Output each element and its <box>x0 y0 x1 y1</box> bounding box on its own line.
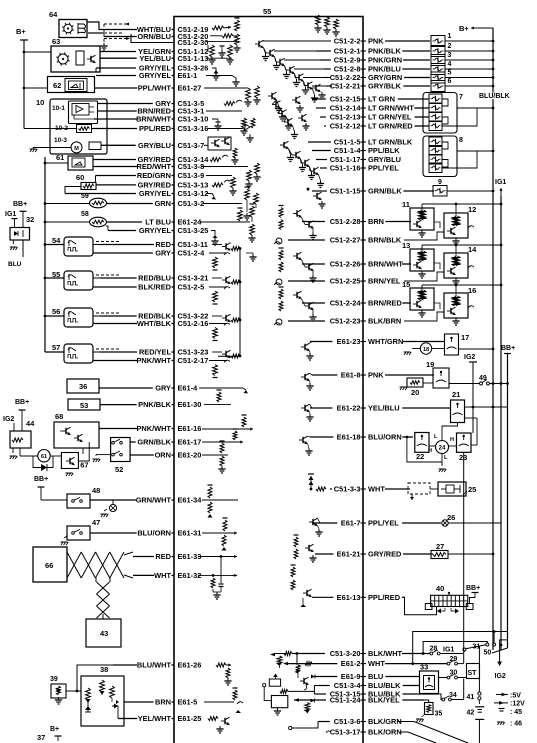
svg-text:39: 39 <box>50 676 58 683</box>
wire GRY/YEL to C51-3-25 <box>108 230 136 232</box>
driver E61-18 <box>302 437 304 443</box>
wire BLK/WHT from C51-3-20 <box>292 653 325 655</box>
internal E61-20 <box>202 454 228 456</box>
load 6 <box>431 81 445 92</box>
coil wiring 11/12 <box>422 203 501 205</box>
diagonal leads bottom <box>398 722 468 743</box>
wire BLK/ORN from C51-3-17 <box>326 731 328 733</box>
svg-text:14: 14 <box>468 245 477 254</box>
internal E61-16 <box>202 428 250 430</box>
wire BLU/ORN to E61-31 <box>117 532 137 534</box>
svg-text:PNK/BLK: PNK/BLK <box>368 47 402 56</box>
svg-text:50: 50 <box>484 650 492 657</box>
svg-text:13: 13 <box>402 241 410 250</box>
wire PPL/WHT to E61-27 <box>95 87 137 89</box>
svg-text:59: 59 <box>81 193 89 200</box>
svg-text:C51-2-5: C51-2-5 <box>178 283 205 292</box>
relay wiring <box>463 452 465 663</box>
svg-text:BB+: BB+ <box>466 585 480 592</box>
svg-text:BLK/WHT: BLK/WHT <box>368 649 403 658</box>
wire YEL/BLU to C51-1-13 <box>100 57 137 59</box>
svg-text:B+: B+ <box>50 726 59 733</box>
internal C51-3-1 <box>206 110 242 112</box>
svg-text:61: 61 <box>56 153 64 162</box>
load 4 <box>431 64 445 75</box>
wire BLU/WHT riser <box>77 665 113 691</box>
svg-text:E61-13: E61-13 <box>337 593 361 602</box>
svg-text:C51-3-12: C51-3-12 <box>178 189 209 198</box>
load 3 <box>431 55 445 66</box>
svg-text:BLK/ORN: BLK/ORN <box>368 728 402 737</box>
svg-text:38: 38 <box>100 665 108 674</box>
svg-text:H: H <box>450 437 454 443</box>
wires injector 54 <box>93 244 100 246</box>
wire PNK/BLK to E61-30 <box>100 404 137 406</box>
svg-text:GRY/YEL: GRY/YEL <box>139 226 172 235</box>
svg-text:PNK: PNK <box>368 371 384 380</box>
wire GRY/GRN from C51-2-22 <box>325 77 328 79</box>
svg-text:54: 54 <box>52 236 61 245</box>
svg-text:BRN: BRN <box>155 698 171 707</box>
svg-text:E61-2: E61-2 <box>341 659 361 668</box>
internal C51-3-16 clamp <box>208 128 243 130</box>
svg-text:11: 11 <box>402 200 410 209</box>
svg-text:E61-7: E61-7 <box>341 519 361 528</box>
svg-text:IG1: IG1 <box>5 211 16 218</box>
svg-text:BLU: BLU <box>368 672 383 681</box>
svg-text:C51-3-17: C51-3-17 <box>330 728 361 737</box>
ground 67 <box>66 472 73 474</box>
svg-text:PPL/BLK: PPL/BLK <box>368 146 400 155</box>
svg-text:C51-2-23: C51-2-23 <box>330 317 361 326</box>
wire RED/WHT to C51-3-8 <box>93 166 137 168</box>
svg-text:C51-2-30: C51-2-30 <box>178 38 209 47</box>
internal E61-31 <box>202 532 234 534</box>
internal C51-3-25 <box>211 231 215 236</box>
wire BLU/BLK from C51-3-15 <box>314 693 326 695</box>
svg-text:3: 3 <box>448 52 452 59</box>
svg-text:10-3: 10-3 <box>54 137 67 144</box>
extra driver row 6 <box>315 85 317 91</box>
svg-text:BRN/RED: BRN/RED <box>368 299 402 308</box>
svg-text:C51-2-15: C51-2-15 <box>330 95 361 104</box>
internal C51-3-8 <box>202 166 248 168</box>
svg-text:PNK/BLK: PNK/BLK <box>138 400 172 409</box>
svg-text:40: 40 <box>436 584 444 593</box>
wire PNK from C51-2-2 <box>329 40 331 42</box>
wire BRN/WHT to C51-3-10 <box>94 118 137 120</box>
wire YEL/WHT to E61-25 <box>118 718 137 720</box>
svg-text:C51-2-13: C51-2-13 <box>330 113 361 122</box>
bus ends bottom <box>500 644 503 647</box>
svg-text:GRN/BLK: GRN/BLK <box>137 438 171 447</box>
wire BLK/RED to C51-2-5 <box>93 286 137 288</box>
shield drain wire <box>131 41 174 43</box>
svg-text:M: M <box>74 146 79 152</box>
svg-text:9: 9 <box>438 179 442 186</box>
wire BLK/GRN from C51-3-6 <box>318 721 330 723</box>
svg-text:BLU: BLU <box>8 261 22 268</box>
svg-text:PPL/YEL: PPL/YEL <box>368 519 399 528</box>
wire GRN/WHT to E61-34 <box>117 499 136 501</box>
wire LT GRN/BLK from C51-1-5 <box>308 141 331 143</box>
svg-text:6: 6 <box>448 78 452 85</box>
svg-text:B+: B+ <box>459 24 469 33</box>
svg-text:BLU/ORN: BLU/ORN <box>368 433 402 442</box>
ground of 32 <box>10 246 17 248</box>
wire GRY/YEL to E61-1 <box>96 75 136 77</box>
svg-text:C51-3-10: C51-3-10 <box>178 115 209 124</box>
twisted pair wiring <box>67 552 81 578</box>
sensor 43 <box>86 619 121 647</box>
svg-text:42: 42 <box>467 710 475 717</box>
wires injector 56 <box>93 315 100 317</box>
svg-text:1: 1 <box>448 33 452 40</box>
svg-text:56: 56 <box>52 307 60 316</box>
svg-text:C51-1-15: C51-1-15 <box>330 187 361 196</box>
wire PPL/YEL from C51-1-16 <box>320 167 327 169</box>
transistor cascade B <box>271 93 273 99</box>
internal C51-3-13 <box>212 183 223 187</box>
svg-text:GRY: GRY <box>155 249 171 258</box>
internal injector drivers <box>212 244 222 246</box>
svg-text:5: 5 <box>448 70 452 77</box>
svg-text:E61-25: E61-25 <box>178 714 202 723</box>
internal driver transistor <box>303 678 305 684</box>
svg-text:C51-3-6: C51-3-6 <box>334 717 361 726</box>
svg-text:C51-2-26: C51-2-26 <box>330 260 361 269</box>
svg-text:18: 18 <box>423 347 429 353</box>
wire GRN/BLK to E61-17 <box>131 441 136 443</box>
svg-text:C51-2-17: C51-2-17 <box>178 356 209 365</box>
internal divider E61-2 <box>283 662 288 665</box>
ground 24 <box>439 468 446 470</box>
svg-text:37: 37 <box>37 733 45 742</box>
sensor 20 <box>407 378 423 387</box>
svg-text:GRY/YEL: GRY/YEL <box>139 71 172 80</box>
svg-text:C51-3-20: C51-3-20 <box>330 649 361 658</box>
svg-text:12: 12 <box>468 205 476 214</box>
internal E61-26 <box>216 663 226 667</box>
internal E61-32 <box>198 574 234 576</box>
main B+ bus <box>492 28 494 650</box>
driver E61-7 <box>312 519 314 525</box>
internal E61-34 <box>202 499 238 501</box>
wire RED/GRN to C51-3-9 <box>96 175 136 177</box>
wire BRN/RED to C51-3-1 <box>98 110 137 112</box>
wire YEL/GRN to C51-1-12 <box>100 51 136 53</box>
svg-text:25: 25 <box>468 485 476 494</box>
internal E61-33 <box>198 556 234 558</box>
svg-text::5V: :5V <box>510 693 521 700</box>
wires injector 55 <box>93 277 100 279</box>
wire YEL/BLU from E61-22 <box>310 407 332 409</box>
svg-text:E61-1: E61-1 <box>178 71 198 80</box>
legend 46 <box>497 721 504 723</box>
svg-text:BRN: BRN <box>368 217 384 226</box>
svg-text:C51-3-21: C51-3-21 <box>178 274 209 283</box>
svg-text:24: 24 <box>439 446 446 452</box>
svg-text:BLK/YEL: BLK/YEL <box>368 696 400 705</box>
internal C51-1-24 network <box>294 698 299 701</box>
svg-text:GRN: GRN <box>155 199 171 208</box>
wire LT GRN from C51-2-15 <box>312 98 326 100</box>
load 9 <box>433 186 447 197</box>
svg-text:C51-2-27: C51-2-27 <box>330 236 361 245</box>
svg-text:BB+: BB+ <box>34 476 48 483</box>
wire PNK/GRN from C51-2-9 <box>320 59 330 61</box>
wire PNK/BLU from C51-2-8 <box>324 68 330 70</box>
svg-text:10-1: 10-1 <box>52 105 65 112</box>
transistor cascade C <box>283 142 285 148</box>
svg-text:PPL/RED: PPL/RED <box>368 593 401 602</box>
svg-text:C51-3-7: C51-3-7 <box>178 141 205 150</box>
resistor 35 <box>425 703 434 715</box>
svg-text:IG2: IG2 <box>464 354 475 361</box>
svg-text:IG1: IG1 <box>495 179 506 186</box>
svg-text:58: 58 <box>81 211 89 218</box>
wire PPL/RED from E61-13 <box>312 596 333 598</box>
load 1 <box>431 36 445 47</box>
internal bracket C51-3-4/15 <box>313 686 315 695</box>
svg-text:15: 15 <box>402 280 410 289</box>
wire C51-3-15 to switch 34 <box>438 694 442 700</box>
internal C51-3-26 pulldown <box>212 68 216 73</box>
ground 44 <box>10 455 17 457</box>
internal E61-30 <box>217 392 221 402</box>
svg-text:C51-3-3: C51-3-3 <box>334 485 361 494</box>
switch 47 <box>67 526 90 540</box>
wire BLK/BRN from C51-2-23 <box>288 320 325 322</box>
svg-text:RED/WHT: RED/WHT <box>137 162 172 171</box>
legend 12V <box>494 702 508 704</box>
svg-text:16: 16 <box>468 286 476 295</box>
svg-text:BLU/BLK: BLU/BLK <box>479 93 510 100</box>
svg-text:PNK/WHT: PNK/WHT <box>137 424 172 433</box>
svg-text:47: 47 <box>92 518 100 527</box>
wire BRN/BLK from C51-2-27 <box>288 239 325 241</box>
svg-text:LT GRN/RED: LT GRN/RED <box>368 122 413 131</box>
svg-text:E61-27: E61-27 <box>178 84 202 93</box>
svg-text:27: 27 <box>436 542 444 551</box>
svg-text:8: 8 <box>459 137 463 144</box>
svg-text:PNK: PNK <box>368 37 384 46</box>
svg-text:BRN/WHT: BRN/WHT <box>136 115 171 124</box>
driver E61-21 <box>294 537 298 547</box>
svg-text:63: 63 <box>52 37 60 46</box>
svg-text:49: 49 <box>479 375 487 382</box>
internal E61-4 <box>199 387 243 389</box>
svg-text:GRY: GRY <box>155 384 171 393</box>
wire GRY/BLK from C51-2-21 <box>326 85 332 87</box>
svg-text:44: 44 <box>26 419 35 428</box>
svg-text:C51-2-2: C51-2-2 <box>334 37 361 46</box>
svg-text:B+: B+ <box>16 27 26 36</box>
internal C51-3-10 <box>212 118 218 120</box>
wire RED to C51-3-11 <box>100 244 154 246</box>
wire GRN to C51-3-2 <box>106 203 153 205</box>
svg-text:C51-3-25: C51-3-25 <box>178 226 209 235</box>
group 7 wiring <box>442 99 448 106</box>
svg-text:BLK/RED: BLK/RED <box>138 283 172 292</box>
svg-text:E61-22: E61-22 <box>337 404 361 413</box>
wire PNK/WHT to E61-16 <box>99 428 137 430</box>
svg-text:C51-3-2: C51-3-2 <box>178 199 205 208</box>
svg-text:10: 10 <box>36 98 44 107</box>
internal driver C51-3-7 <box>208 137 231 150</box>
legend 45 <box>499 708 505 710</box>
svg-text:36: 36 <box>79 382 87 391</box>
svg-text:C51-2-24: C51-2-24 <box>330 299 362 308</box>
internal C51-3-2 network <box>203 203 242 205</box>
svg-text:55: 55 <box>263 7 271 16</box>
driver common rail <box>239 249 241 357</box>
svg-text:WHT/BLK: WHT/BLK <box>137 319 172 328</box>
svg-text:C51-3-8: C51-3-8 <box>178 162 205 171</box>
drivers for ignition rows <box>296 210 298 216</box>
svg-text:BLU/WHT: BLU/WHT <box>137 661 172 670</box>
svg-text:H: H <box>428 448 432 454</box>
wire from 64 <box>87 22 110 30</box>
svg-text:23: 23 <box>459 453 467 462</box>
svg-text:WHT: WHT <box>368 485 385 494</box>
wire WHT to E61-32 <box>133 574 154 576</box>
svg-text:E61-26: E61-26 <box>178 661 202 670</box>
svg-text:GRN/WHT: GRN/WHT <box>136 496 172 505</box>
driver E61-13 <box>291 567 295 577</box>
internal C51-3-17 tick <box>328 731 331 733</box>
svg-text:C51-1-24: C51-1-24 <box>330 696 362 705</box>
svg-text:C51-1-13: C51-1-13 <box>178 54 209 63</box>
sensor 53 <box>68 399 100 410</box>
wire RED/BLU to C51-3-21 <box>100 277 137 279</box>
svg-text:: 46: : 46 <box>510 721 522 728</box>
svg-text:41: 41 <box>467 694 475 701</box>
svg-text:35: 35 <box>435 711 443 718</box>
svg-text:BB+: BB+ <box>501 345 515 352</box>
svg-text:GRY/RED: GRY/RED <box>368 550 402 559</box>
legend 5V <box>496 694 508 696</box>
internal C51-3-9 <box>206 175 232 177</box>
svg-text:LT GRN/WHT: LT GRN/WHT <box>368 104 414 113</box>
wires injector 57 <box>93 351 100 353</box>
shield ground <box>103 43 105 46</box>
BLU/BLK bus label <box>478 93 510 100</box>
svg-text:YEL/WHT: YEL/WHT <box>138 714 172 723</box>
svg-text:C51-3-9: C51-3-9 <box>178 171 205 180</box>
svg-text:C51-2-28: C51-2-28 <box>330 217 361 226</box>
svg-text:BB+: BB+ <box>15 399 29 406</box>
svg-text:C51-2-9: C51-2-9 <box>334 56 361 65</box>
clamp diodes rows 7-10 <box>295 97 297 103</box>
wire BRN from C51-2-28 <box>302 221 325 223</box>
svg-text:PPL/WHT: PPL/WHT <box>138 84 172 93</box>
wire BLU/ORN from E61-18 <box>310 436 333 438</box>
svg-text:RED: RED <box>155 552 171 561</box>
starter ST <box>467 664 480 679</box>
lamp 18 <box>420 343 431 354</box>
internal terminal pin <box>263 684 266 687</box>
svg-text:66: 66 <box>45 561 53 570</box>
wire GRY/BLU from C51-1-17 <box>316 159 327 161</box>
svg-text:61: 61 <box>41 454 47 460</box>
svg-text:IG2: IG2 <box>495 673 506 680</box>
wire BLK/YEL from C51-1-24 <box>294 699 326 701</box>
svg-text:GRY/BLK: GRY/BLK <box>368 82 402 91</box>
wire RED/BLK to C51-3-22 <box>100 315 137 317</box>
wire WHT from C51-3-3 <box>330 488 332 490</box>
svg-text:2: 2 <box>448 43 452 50</box>
wire BRN/WHT from C51-2-26 <box>302 263 325 265</box>
wire PPL/BLK from C51-1-4 <box>312 150 331 152</box>
svg-text:53: 53 <box>80 401 88 410</box>
bottom internal network <box>270 653 275 656</box>
wire GRY to E61-4 <box>99 387 153 389</box>
feed from relay 32 to injectors <box>30 232 46 234</box>
svg-text:BLK/BRN: BLK/BRN <box>368 317 401 326</box>
svg-text:57: 57 <box>52 343 60 352</box>
svg-text:C51-2-25: C51-2-25 <box>330 277 361 286</box>
return loop 24 <box>406 436 409 439</box>
svg-text:PPL/YEL: PPL/YEL <box>368 164 399 173</box>
wire PPL/RED to C51-3-16 <box>92 128 137 130</box>
svg-text:20: 20 <box>411 388 419 397</box>
driver E61-23 <box>304 344 306 350</box>
svg-text:E61-16: E61-16 <box>178 424 202 433</box>
bias network top <box>316 15 321 25</box>
wire E61-13 to 40 <box>404 597 437 614</box>
svg-text:C51-2-21: C51-2-21 <box>330 82 361 91</box>
svg-text:26: 26 <box>447 513 455 522</box>
internal C51-3-12 <box>206 194 214 197</box>
svg-text:IG2: IG2 <box>3 416 14 423</box>
internal rc network C51-1-12/13 <box>207 45 209 52</box>
wire 48 to E61-34 <box>90 499 117 501</box>
svg-text:WHT: WHT <box>154 571 171 580</box>
wire RED/YEL to C51-3-23 <box>100 351 137 353</box>
svg-text:: 45: : 45 <box>510 709 522 716</box>
wire GRY to C51-3-5 <box>98 103 153 105</box>
svg-text:21: 21 <box>452 390 460 399</box>
svg-text:ORN/BLU: ORN/BLU <box>137 32 171 41</box>
wire PNK from E61-8 <box>312 374 337 376</box>
svg-text:10-2: 10-2 <box>55 125 68 132</box>
svg-text:C51-2-1: C51-2-1 <box>334 47 361 56</box>
svg-text:E61-21: E61-21 <box>337 550 361 559</box>
svg-text:64: 64 <box>49 10 58 19</box>
svg-text:IG1: IG1 <box>443 647 454 654</box>
ECU module 55 outline <box>174 17 363 743</box>
svg-text:RED/BLU: RED/BLU <box>138 274 171 283</box>
svg-text:GRY/BLU: GRY/BLU <box>138 141 171 150</box>
internal diode E61-9 <box>311 675 315 679</box>
ground for 10-3 <box>30 148 37 150</box>
svg-text:7: 7 <box>459 94 463 101</box>
switch 52 <box>111 438 131 462</box>
wire RED to E61-33 <box>133 556 154 558</box>
load 5 <box>431 72 445 83</box>
svg-text:30: 30 <box>450 670 458 677</box>
svg-text:22: 22 <box>416 452 424 461</box>
wire GRY/YEL to C51-3-26 <box>96 67 136 69</box>
grounds 40 <box>437 609 441 614</box>
svg-text:28: 28 <box>430 646 438 653</box>
wire PNK/WHT to C51-2-17 <box>93 360 137 362</box>
shield drain tick <box>130 34 132 41</box>
svg-text:PPL/RED: PPL/RED <box>139 124 172 133</box>
shield dashed lines for 64 wiring <box>104 23 129 25</box>
svg-text:YEL/BLU: YEL/BLU <box>139 54 171 63</box>
